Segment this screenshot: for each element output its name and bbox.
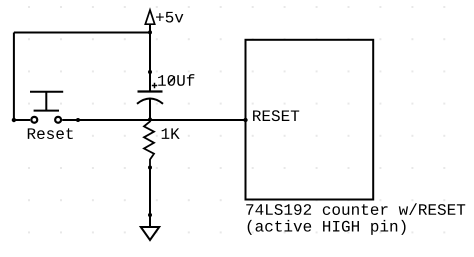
capacitor C1 curved bottom plate (137, 99, 163, 104)
label 10Uf (158, 74, 194, 86)
node capacitor top pin (148, 70, 152, 74)
ground symbol (141, 227, 159, 240)
wire left vertical rail (13, 33, 15, 121)
capacitor C1 10Uf top plate (138, 90, 163, 92)
capacitor C1 polarity plus (152, 83, 157, 88)
node resistor bottom (148, 166, 152, 170)
node main junction (cap/button/resistor/IC) (148, 118, 152, 122)
wire resistor to ground (149, 168, 151, 228)
power +5v arrow (145, 10, 154, 24)
wire +5v vertical down to capacitor (149, 24, 151, 91)
wire capacitor bottom to main node (149, 99, 151, 120)
node junction right of button (76, 118, 80, 122)
node +5v branch junction (148, 30, 152, 34)
node above ground (148, 213, 152, 217)
wire from right button terminal to IC (62, 119, 245, 121)
node RESET pin junction (243, 118, 247, 122)
label 10Uf zero slash (168, 77, 175, 85)
resistor R1 1K zigzag (144, 120, 154, 167)
pushbutton SW1 stem (45, 92, 47, 111)
pushbutton SW1 contact bar (34, 110, 59, 112)
label +5v (156, 12, 183, 23)
pushbutton SW1 right terminal (55, 117, 61, 123)
pushbutton SW1 left terminal (31, 117, 37, 123)
node left rail corner (12, 118, 16, 122)
label 74LS192 counter w/RESET (246, 203, 465, 215)
pushbutton SW1 push bar (30, 91, 63, 93)
label Reset (28, 128, 73, 139)
IC U1 74LS192 body (246, 40, 374, 200)
wire top horizontal from +5v junction to left rail (14, 32, 150, 34)
wire to left button terminal (14, 119, 30, 121)
label (active HIGH pin) (248, 220, 406, 235)
label 1K (162, 128, 180, 139)
pin label RESET (253, 110, 299, 121)
